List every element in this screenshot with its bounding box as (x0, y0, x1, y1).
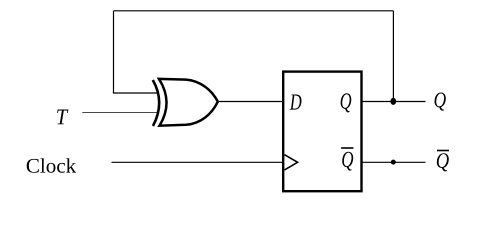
label Clock (27, 158, 76, 173)
wire: feedback left vertical (113, 11, 115, 93)
junction dot at node Q-bar (391, 160, 396, 165)
wire: T input (82, 112, 157, 114)
label Q-bar (output net) (437, 153, 449, 171)
label Q (output net) (435, 93, 446, 111)
XOR gate U1: extra input arc (153, 80, 159, 126)
wire: feedback right vertical (392, 11, 394, 102)
D flip-flop U2: clock edge triangle (285, 155, 298, 170)
wire: XOR output to D (218, 101, 284, 103)
label Q (pin) (341, 93, 352, 112)
wire: feedback top horizontal (114, 10, 394, 12)
XOR gate U1: body (159, 79, 218, 126)
label D (pin) (290, 95, 302, 110)
wire: Clock input (112, 161, 284, 163)
wire: XOR upper input (feedback) (113, 92, 157, 94)
wire: Q-bar output (362, 161, 426, 163)
overbar of output Q-bar (437, 150, 449, 152)
wire: Q output (362, 101, 426, 103)
label Q-bar (pin) (342, 152, 353, 171)
junction dot at node Q (390, 98, 396, 105)
overbar of pin Q-bar (341, 147, 353, 149)
D flip-flop U2: box (283, 72, 361, 192)
label T (57, 110, 68, 125)
